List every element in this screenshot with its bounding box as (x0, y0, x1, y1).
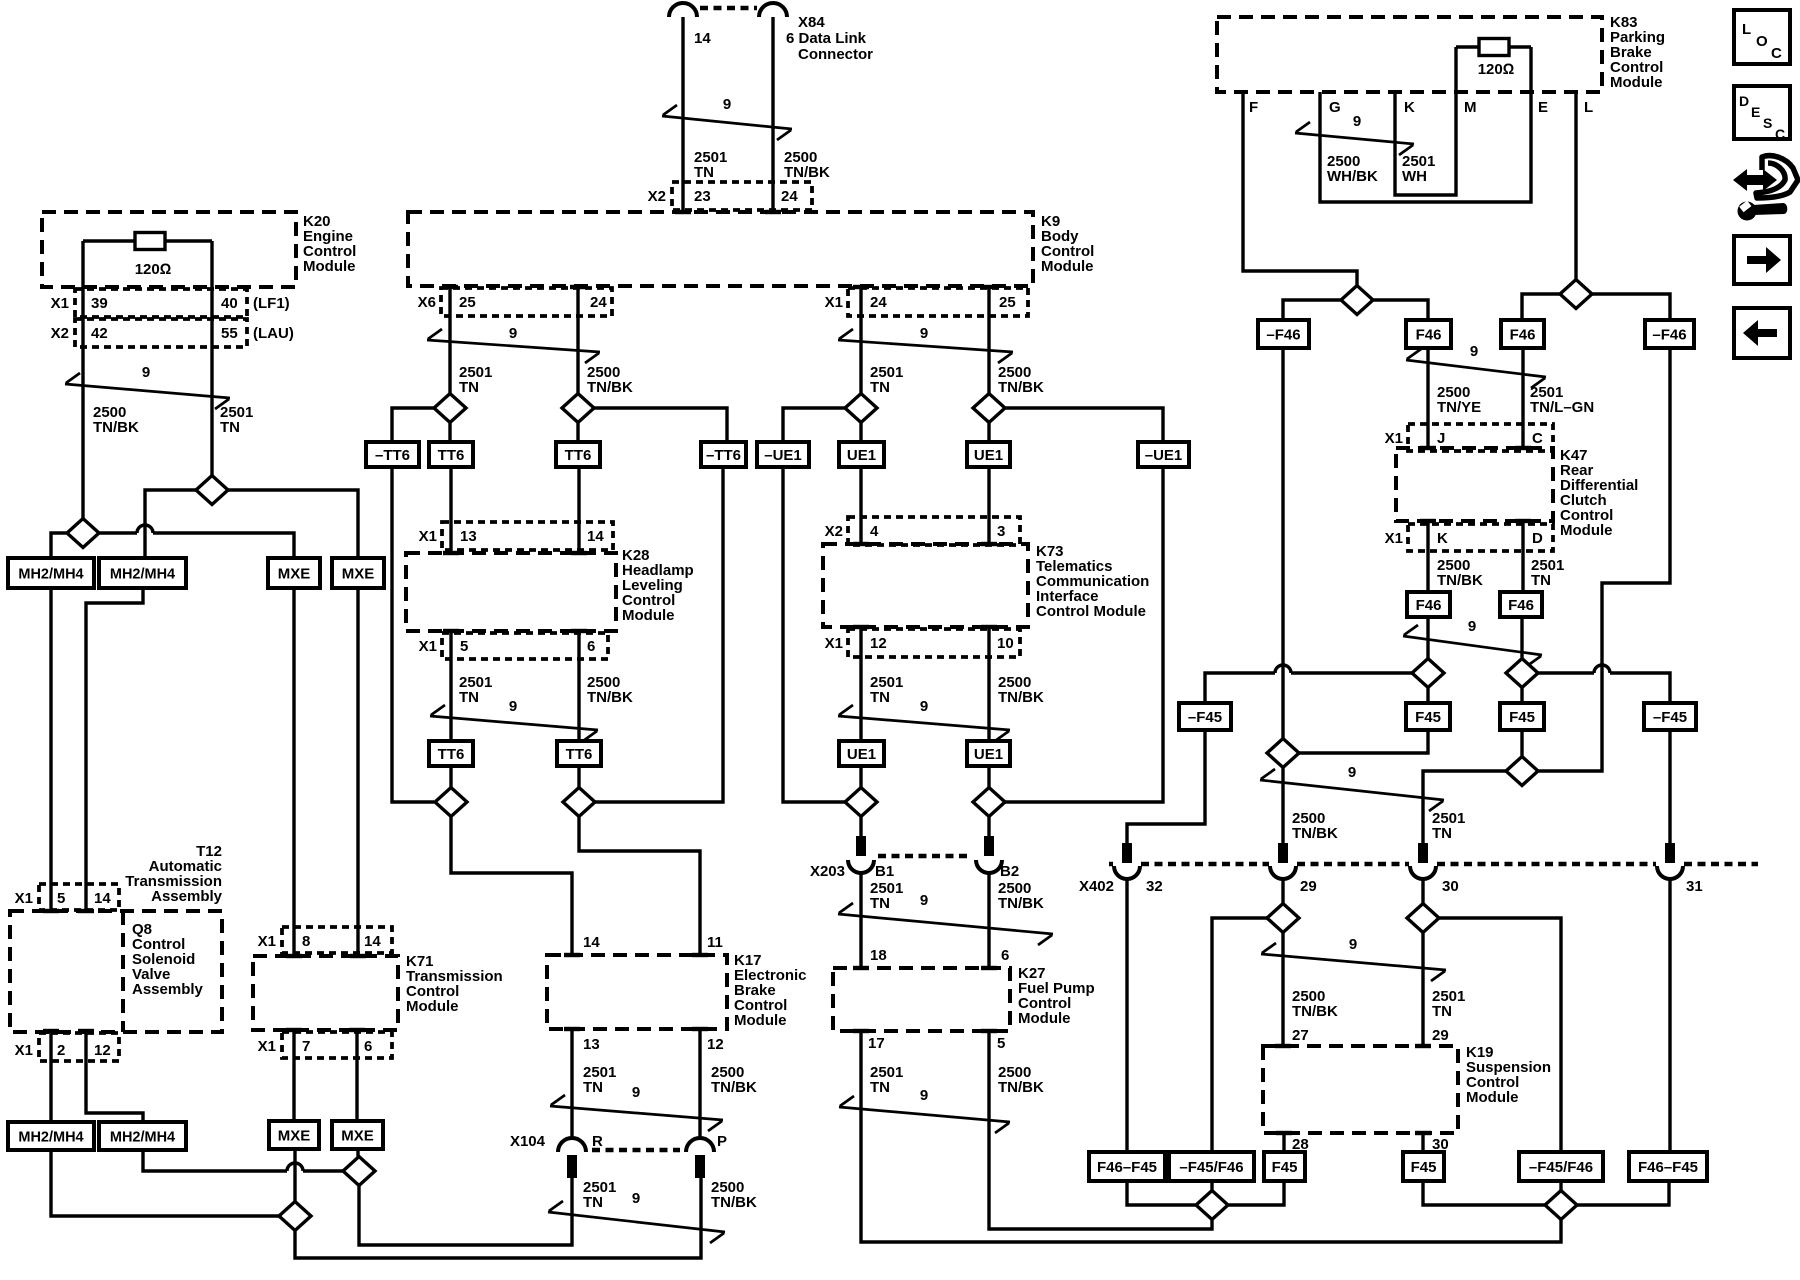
svg-text:2501TN: 2501TN (1432, 988, 1465, 1020)
dashed link of X402 (1109, 862, 1758, 867)
wire TT6(e) to splice S7 (449, 766, 452, 788)
wire -TT6(a) down to splice S7 (392, 467, 434, 802)
wire X203 B1 to K27 pin 18 (859, 872, 862, 968)
connector -F45 (a) (1179, 703, 1231, 730)
wire MXE(3rd) down through hop to splice S4 (293, 1149, 296, 1202)
wire 2500 TN/BK K28 pin 6 to TT6 (f) (577, 631, 580, 741)
connector row X1 of K71 (pins 8,14) (282, 927, 392, 953)
splice mark 9 on K28 wires (430, 705, 598, 741)
wire 2500 TN/BK splice S8 to K17 pin 11 (579, 817, 700, 956)
pin T-bar at T12 top pin 14 (78, 909, 94, 913)
svg-text:2500TN/BK: 2500TN/BK (1292, 988, 1338, 1020)
icon forward arrow box (1734, 236, 1790, 284)
connector row X1 of K20 (pins 39,40) (75, 289, 247, 317)
splice S14 under K83 pin L (1560, 280, 1592, 309)
svg-text:27: 27 (1292, 1027, 1309, 1044)
svg-text:X1: X1 (1385, 430, 1403, 447)
pin T-bar at K17 top pin 11 (692, 953, 708, 957)
svg-text:L: L (1742, 21, 1751, 38)
svg-text:C: C (1775, 126, 1785, 142)
wire MXE(4th) down to splice S3 (356, 1149, 359, 1157)
svg-text:X2: X2 (825, 523, 843, 540)
icon double arrow with wrench (1733, 169, 1777, 191)
splice S1 on 2500 TN/BK (67, 519, 99, 548)
module K28 Headlamp Leveling Control Module (406, 553, 616, 631)
wire TT6(c) to K28 X1-14 (577, 467, 580, 553)
module K9 Body Control Module (408, 212, 1033, 286)
wire UE1(e) to splice S11 (859, 766, 862, 788)
branch wire splice S6 to TT6 (c) (576, 423, 579, 443)
splice S11 on 2501 TN (845, 788, 877, 817)
svg-text:2501TN: 2501TN (870, 1064, 903, 1096)
svg-text:X6: X6 (418, 294, 436, 311)
wire 2500 TN/BK K47 pin K to F46 (e) (1426, 521, 1429, 592)
svg-text:B1: B1 (875, 863, 894, 880)
wire 2501 TN K9 X6-25 down to splice S5 (448, 286, 451, 394)
svg-text:9: 9 (920, 698, 928, 715)
svg-text:T12AutomaticTransmissionAssemb: T12AutomaticTransmissionAssembly (125, 843, 222, 905)
connector F46 (f) (1500, 592, 1542, 617)
splice mark 9 on K17 wires (550, 1095, 723, 1131)
svg-text:14: 14 (587, 528, 604, 545)
svg-text:–F45/F46: –F45/F46 (1529, 1159, 1593, 1176)
svg-text:(LAU): (LAU) (253, 325, 294, 342)
splice S4 under MXE (3rd) (279, 1202, 311, 1231)
svg-text:5: 5 (997, 1035, 1005, 1052)
pin T-bar at T12 bottom pin 12 (78, 1029, 94, 1033)
connector F45 (b) (1406, 703, 1450, 730)
pin T-bar at K9 bottom X1-25 (981, 285, 997, 289)
branch wire MH2/MH4(4th) to splice S3 (143, 1150, 343, 1171)
svg-text:X1: X1 (1385, 530, 1403, 547)
svg-text:–F46: –F46 (1266, 326, 1300, 343)
pin T-bar at K71 bottom pin 7 (286, 1028, 302, 1032)
inline connector X104 terminal P (686, 1138, 714, 1152)
svg-text:X1: X1 (825, 635, 843, 652)
svg-text:2500TN/BK: 2500TN/BK (93, 404, 139, 436)
connector F45 (d2) (1403, 1152, 1444, 1181)
svg-text:4: 4 (870, 523, 879, 540)
connector row X1 of K9 (pins 24,25) (848, 288, 1028, 316)
splice S19 on 2500 TN/BK (1267, 739, 1299, 768)
svg-text:2500TN/BK: 2500TN/BK (998, 1064, 1044, 1096)
svg-text:E: E (1751, 104, 1760, 120)
connector -F45/F46 (e) (1519, 1152, 1603, 1181)
svg-text:6: 6 (364, 1038, 372, 1055)
svg-text:E: E (1538, 99, 1548, 116)
wire TT6(b) to K28 X1-13 (449, 467, 452, 553)
svg-text:17: 17 (868, 1035, 885, 1052)
wire 2501 TN MH2/MH4 to T12 pin 14 (86, 588, 143, 911)
svg-text:F46–F45: F46–F45 (1097, 1159, 1157, 1176)
svg-text:2501TN: 2501TN (870, 880, 903, 912)
pin T-bar at K19 top pin 29 (1415, 1044, 1431, 1048)
svg-text:K9BodyControlModule: K9BodyControlModule (1041, 213, 1094, 275)
splice S21 under X402-29 (1267, 904, 1299, 933)
svg-text:29: 29 (1300, 878, 1317, 895)
wire TT6(f) to splice S8 (577, 766, 580, 788)
svg-text:2500TN/BK: 2500TN/BK (711, 1179, 757, 1211)
splice mark 9 on K83 wires (1295, 122, 1414, 155)
svg-text:2500TN/BK: 2500TN/BK (587, 364, 633, 396)
connector row X1 of K28 (pins 5,6) (442, 633, 608, 659)
svg-text:2501TN: 2501TN (1432, 810, 1465, 842)
svg-text:F: F (1249, 99, 1258, 116)
svg-text:7: 7 (302, 1038, 310, 1055)
svg-text:13: 13 (583, 1036, 600, 1053)
connector row X1 of K71 (pins 7,6) (282, 1032, 392, 1058)
splice mark 9 on K27 wires (839, 1096, 1010, 1133)
svg-text:MXE: MXE (278, 1127, 311, 1144)
branch F46-F45(f) to splice S16 (1577, 1181, 1669, 1205)
svg-text:2501TN/L–GN: 2501TN/L–GN (1530, 384, 1594, 416)
connector UE1 (f) (967, 741, 1010, 766)
svg-text:14: 14 (583, 934, 600, 951)
wire 2500 TN/BK MXE to K71 pin 8 (292, 588, 295, 956)
connector F46 (b) (1406, 320, 1451, 348)
wire hop over -F46(d) jog (1594, 665, 1610, 673)
svg-text:9: 9 (723, 96, 731, 113)
svg-text:X104: X104 (510, 1133, 546, 1150)
svg-text:2500TN/BK: 2500TN/BK (587, 674, 633, 706)
svg-text:K83ParkingBrakeControlModule: K83ParkingBrakeControlModule (1610, 14, 1665, 91)
pin T-bar at K27 bottom pin 17 (853, 1029, 869, 1033)
inline connector X402 terminal 30 (1418, 843, 1428, 863)
dashed link of X203 (878, 854, 972, 859)
wire hop over MXE(3rd) wire (287, 1163, 303, 1171)
connector MXE (2nd) (332, 558, 384, 588)
svg-text:B2: B2 (1000, 863, 1019, 880)
connector row X1 of K47 (pins J,C) (1408, 424, 1553, 451)
svg-text:9: 9 (1348, 764, 1356, 781)
svg-text:X1: X1 (419, 638, 437, 655)
svg-text:9: 9 (920, 892, 928, 909)
svg-text:40: 40 (221, 295, 238, 312)
module K27 Fuel Pump Control Module (833, 968, 1010, 1031)
svg-text:32: 32 (1146, 878, 1163, 895)
splice S20 on 2501 TN (1506, 757, 1538, 786)
svg-text:39: 39 (91, 295, 108, 312)
inline connector X402 terminal 32 (1122, 843, 1132, 863)
wire 2501 TN splice S7 to K17 pin 14 (451, 817, 572, 956)
wire 2501 TN K47 pin D to F46 (f) (1521, 521, 1524, 592)
branch splice S22 to -F45/F46 (e) (1439, 918, 1561, 1152)
branch splice S13 to -F46 (a) (1283, 300, 1341, 320)
inline connector X203 terminal B1 (856, 836, 866, 856)
branch wire splice S6 to -TT6 (d) (594, 408, 727, 442)
svg-text:31: 31 (1686, 878, 1703, 895)
svg-text:2501TN: 2501TN (694, 149, 727, 181)
wire 2501 TN K9 X1-24 down to splice S9 (859, 286, 862, 394)
splice mark 9 on X6 wires (427, 329, 600, 363)
branch wire splice S10 to UE1 (c) (987, 423, 990, 443)
splice S12 on 2500 TN/BK (973, 788, 1005, 817)
icon back arrow box (1734, 308, 1790, 358)
svg-text:9: 9 (920, 1087, 928, 1104)
wire X402-32 to F46-F45 (a) (1125, 879, 1128, 1152)
wire 2500 TN/BK splice S4 to X104 P (295, 1178, 701, 1258)
splice mark 9 below F46 (e,f) (1403, 625, 1542, 666)
svg-text:9: 9 (632, 1084, 640, 1101)
connector row X1 of K28 (pins 13,14) (442, 522, 613, 550)
wire -UE1(d) down to splice S12 (1005, 467, 1163, 802)
pin T-bar at T12 top pin 5 (43, 909, 59, 913)
svg-text:6 Data Link: 6 Data Link (786, 30, 867, 47)
branch wire from splice S2 to MH2/MH4 (2nd) (145, 490, 196, 558)
wire 2501 TN K17 pin 13 to X104 R (570, 1029, 573, 1140)
connector MH2/MH4 (3rd) (8, 1122, 94, 1150)
svg-text:9: 9 (1470, 343, 1478, 360)
svg-text:9: 9 (509, 325, 517, 342)
wire 2500 from K83 pin F to splice S13 (1243, 92, 1357, 286)
wire 2500 TN/BK K9 X1-25 down to splice S10 (987, 286, 990, 394)
pin T-bar at T12 bottom pin 2 (43, 1029, 59, 1033)
pin T-bar at K28 bottom pin 5 (443, 629, 459, 633)
wire 2501 TN K28 pin 5 to TT6 (e) (449, 631, 452, 741)
inline connector X104 terminal R (558, 1138, 586, 1152)
svg-text:F45: F45 (1509, 709, 1535, 726)
svg-text:K20EngineControlModule: K20EngineControlModule (303, 213, 356, 275)
connector -F45/F46 (b) (1169, 1152, 1254, 1181)
svg-text:29: 29 (1432, 1027, 1449, 1044)
svg-text:14: 14 (694, 30, 711, 47)
svg-text:12: 12 (870, 635, 887, 652)
wire 2500 TN/BK K73 pin 10 to UE1 (f) (987, 627, 990, 741)
connector -UE1 (a) (757, 442, 809, 467)
pin T-bar at K9 bottom X6-25 (442, 285, 458, 289)
svg-text:Connector: Connector (798, 46, 873, 63)
svg-text:2501TN: 2501TN (1531, 557, 1564, 589)
wire 2501 TN MXE to K71 pin 14 (356, 588, 359, 956)
pin T-bar at K28 top pin 13 (443, 551, 459, 555)
svg-text:9: 9 (1349, 936, 1357, 953)
module K17 Electronic Brake Control Module (547, 955, 727, 1029)
splice S2 on 2501 TN (196, 476, 228, 505)
svg-text:F46–F45: F46–F45 (1638, 1159, 1698, 1176)
svg-text:K: K (1437, 530, 1448, 547)
wire F46(e) to splice S17 (1426, 617, 1429, 659)
svg-text:9: 9 (1468, 618, 1476, 635)
splice mark 9 below X203 (838, 903, 1053, 945)
svg-text:–F46: –F46 (1652, 326, 1686, 343)
svg-text:MH2/MH4: MH2/MH4 (110, 566, 175, 582)
inline connector X402 terminal 31 (1665, 843, 1675, 863)
svg-text:14: 14 (94, 890, 111, 907)
wire 2501 TN/L-GN F46(c) to K47 pin C (1521, 348, 1524, 448)
branch splice S18 to -F45 (d) (1537, 673, 1670, 703)
svg-text:2501TN: 2501TN (459, 364, 492, 396)
wire -F45/F46(e) to splice S16 (1559, 1181, 1562, 1191)
svg-text:F45: F45 (1272, 1159, 1298, 1176)
svg-text:MH2/MH4: MH2/MH4 (18, 566, 83, 582)
branch F46-F45(a) to splice S15 (1127, 1181, 1196, 1205)
connector TT6 (f) (557, 741, 601, 766)
pin T-bar at K27 bottom pin 5 (981, 1029, 997, 1033)
connector row X1 of K73 (pins 12,10) (848, 629, 1020, 657)
wire UE1(c) to K73 X2-3 (987, 467, 990, 544)
svg-text:C: C (1771, 45, 1782, 62)
wire X203 B2 to K27 pin 6 (987, 872, 990, 968)
branch F45(c2) to splice S15 (1228, 1181, 1284, 1205)
svg-text:2501TN: 2501TN (583, 1179, 616, 1211)
splice S10 on 2500 TN/BK (973, 394, 1005, 423)
svg-text:K19SuspensionControlModule: K19SuspensionControlModule (1466, 1044, 1551, 1106)
svg-text:X1: X1 (419, 528, 437, 545)
svg-text:–TT6: –TT6 (706, 447, 741, 464)
wire 2500 TN/BK MH2/MH4 to T12 pin 5 (49, 588, 52, 911)
wire 2500 TN/BK K71 pin 7 to MXE (3rd) (292, 1030, 295, 1121)
pin T-bar at K9 bottom X1-24 (853, 285, 869, 289)
connector -TT6 (a) (366, 442, 419, 467)
wire 2500 TN/YE F46(b) to K47 pin J (1426, 348, 1429, 448)
branch splice S17 to F45 (b) (1426, 688, 1429, 704)
svg-text:120Ω: 120Ω (1478, 61, 1515, 78)
pin T-bar at K47 bottom pin K (1420, 519, 1436, 523)
wire 2501 TN K71 pin 6 to MXE (4th) (355, 1030, 358, 1121)
svg-text:9: 9 (1353, 113, 1361, 130)
wire 2501 TN K27 pin 17 to splice S16 (861, 1031, 1561, 1242)
pin T-bar at K9 top for 2500 TN/BK (765, 210, 781, 214)
wire X402-29 to splice S21 (1281, 879, 1284, 904)
svg-text:2500TN/BK: 2500TN/BK (998, 674, 1044, 706)
splice mark 9 on K20 wires (65, 373, 230, 409)
svg-text:5: 5 (57, 890, 65, 907)
wire 2500 TN/BK K17 pin 12 to X104 P (698, 1029, 701, 1140)
svg-text:10: 10 (997, 635, 1014, 652)
pin T-bar at K9 top for 2501 TN (675, 210, 691, 214)
svg-text:24: 24 (590, 294, 607, 311)
connector row X2 of K20 (pins 42,55) (75, 319, 247, 347)
svg-text:C: C (1532, 430, 1543, 447)
splice S13 under K83 pin F (1341, 286, 1373, 315)
connector F45 (c2) (1264, 1152, 1305, 1181)
connector MH2/MH4 (1st) (8, 558, 94, 588)
wire F46(f) to splice S18 (1520, 617, 1523, 659)
svg-text:2500TN/YE: 2500TN/YE (1437, 384, 1481, 416)
svg-text:25: 25 (459, 294, 476, 311)
branch splice S21 to -F45/F46 (b) (1212, 918, 1267, 1152)
wire 2501 TN T12 pin 12 to MH2/MH4 (4th) (86, 1031, 143, 1122)
svg-text:TT6: TT6 (566, 746, 593, 763)
svg-text:11: 11 (707, 934, 723, 951)
svg-text:X1: X1 (51, 295, 69, 312)
svg-text:MXE: MXE (341, 1127, 374, 1144)
pin T-bar at K73 top pin 4 (853, 542, 869, 546)
svg-text:F46: F46 (1416, 597, 1442, 614)
wire 2501 TN from X84 pin 14 to K9 X2-23 (681, 17, 684, 212)
branch wire splice S10 to -UE1 (d) (1005, 408, 1163, 442)
svg-text:X1: X1 (258, 1038, 276, 1055)
svg-text:TT6: TT6 (438, 447, 465, 464)
pin T-bar at K27 top pin 18 (853, 966, 869, 970)
pin T-bar at K17 top pin 14 (564, 953, 580, 957)
module K19 Suspension Control Module (1263, 1046, 1458, 1133)
branch wire splice S5 to TT6 (b) (448, 423, 451, 443)
branch F45(d2) to splice S16 (1423, 1181, 1545, 1205)
module Q8 Control Solenoid Valve Assembly divider (121, 911, 125, 1032)
wire 2501 TN splice S3 to X104 R (359, 1178, 572, 1245)
svg-text:6: 6 (1001, 947, 1009, 964)
splice S8 on 2500 TN/BK (563, 788, 595, 817)
connector F45 (c) (1500, 703, 1544, 730)
svg-text:K73TelematicsCommunicationInte: K73TelematicsCommunicationInterfaceContr… (1036, 543, 1149, 620)
svg-text:Q8ControlSolenoidValveAssembly: Q8ControlSolenoidValveAssembly (132, 921, 204, 998)
branch splice S14 to -F46 (d) (1592, 294, 1670, 320)
pin T-bar at K73 bottom pin 10 (981, 625, 997, 629)
svg-text:2500WH/BK: 2500WH/BK (1327, 153, 1378, 185)
branch wire MH2/MH4(3rd) to splice S4 (51, 1150, 279, 1216)
wire 2500 TN/BK K9 X6-24 down to splice S6 (576, 286, 579, 394)
connector row X2 of K9 (pins 23,24) (672, 182, 812, 210)
connector row X1 of T12 (pins 2,12) (39, 1033, 119, 1061)
dashed link of X104 (592, 1148, 680, 1153)
wire 2500 TN/BK K27 pin 5 to splice S15 (989, 1031, 1212, 1229)
svg-text:K17ElectronicBrakeControlModul: K17ElectronicBrakeControlModule (734, 952, 807, 1029)
wire 2500 WH/BK loop K83 pin G to resistor (E) (1320, 47, 1531, 202)
svg-text:K47RearDifferentialClutchContr: K47RearDifferentialClutchControlModule (1560, 447, 1638, 539)
svg-text:18: 18 (870, 947, 887, 964)
splice S7 on 2501 TN (435, 788, 467, 817)
pin T-bar at K17 bottom pin 13 (564, 1027, 580, 1031)
wire K19 pin 30 to F45 (d2) (1421, 1133, 1424, 1152)
svg-text:UE1: UE1 (974, 746, 1003, 763)
svg-text:F46: F46 (1510, 326, 1536, 343)
svg-text:24: 24 (781, 188, 798, 205)
connector F46 (c) (1501, 320, 1544, 348)
connector -F46 (d) (1645, 320, 1694, 348)
wire splice S12 to X203 B2 (987, 817, 990, 839)
splice S22 under X402-30 (1407, 904, 1439, 933)
connector UE1 (e) (839, 741, 884, 766)
wire 2500 TN/BK splice S21 to K19 pin 27 (1281, 933, 1284, 1047)
svg-text:R: R (592, 1133, 603, 1150)
wire F45(c) to splice S20 (1520, 730, 1523, 757)
pin T-bar at K73 bottom pin 12 (853, 625, 869, 629)
wire F45(b) to splice S19 (1299, 730, 1428, 753)
splice S6 on 2500 TN/BK (562, 394, 594, 423)
twisted-pair splice mark 9 on X84 wires (662, 105, 792, 140)
svg-text:K: K (1404, 99, 1415, 116)
wire -TT6(d) down to splice S8 (595, 467, 723, 802)
svg-text:MH2/MH4: MH2/MH4 (18, 1129, 83, 1145)
connector row X1 of T12 (pins 5,14) (39, 884, 119, 910)
wire 2500 TN/BK from X84 to K9 X2-24 (771, 17, 774, 212)
connector row X1 of K47 (pins K,D) (1408, 524, 1553, 551)
pin T-bar at K28 top pin 14 (571, 551, 587, 555)
wire -F45(a) to X402 pin 32 (1127, 730, 1205, 843)
svg-text:MH2/MH4: MH2/MH4 (110, 1129, 175, 1145)
svg-text:9: 9 (632, 1190, 640, 1207)
terminating resistor 120 ohm in K20 (83, 239, 212, 242)
svg-text:S: S (1763, 115, 1772, 131)
wire 2501 WH loop K83 pin K to resistor (M) (1395, 47, 1456, 195)
wire 2500 TN/BK from K20 pin 39/42 down (81, 241, 84, 519)
svg-text:2501TN: 2501TN (220, 404, 253, 436)
branch wire from splice S2 to MXE (2nd) (228, 490, 358, 558)
svg-text:9: 9 (509, 698, 517, 715)
svg-text:25: 25 (999, 294, 1016, 311)
svg-text:9: 9 (142, 364, 150, 381)
connector F46-F45 (f) (1629, 1152, 1707, 1181)
wire X402-30 to splice S22 (1421, 879, 1424, 904)
svg-text:2500TN/BK: 2500TN/BK (711, 1064, 757, 1096)
svg-text:2500TN/BK: 2500TN/BK (998, 880, 1044, 912)
svg-text:3: 3 (997, 523, 1005, 540)
svg-text:M: M (1464, 99, 1477, 116)
svg-text:2501WH: 2501WH (1402, 153, 1435, 185)
svg-text:–TT6: –TT6 (375, 447, 410, 464)
wire 2501 TN splice S22 to K19 pin 29 (1421, 933, 1424, 1047)
